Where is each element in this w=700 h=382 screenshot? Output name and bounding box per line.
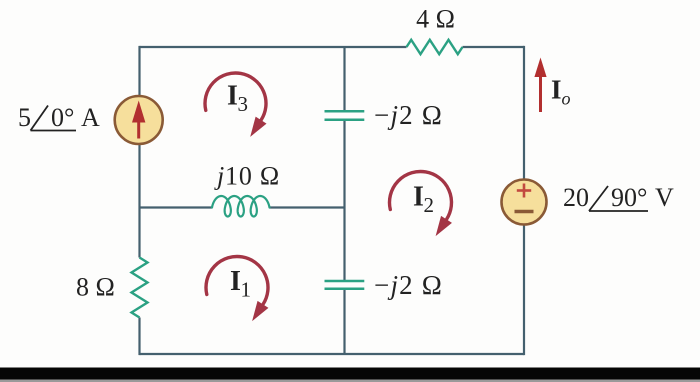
label I3	[227, 81, 248, 117]
wire left middle (current source to 8ohm)	[138, 144, 140, 258]
svg-text:1: 1	[241, 278, 252, 302]
svg-text:90°: 90°	[611, 183, 647, 212]
svg-text:0°: 0°	[51, 103, 74, 132]
wire bottom	[140, 353, 525, 355]
arrow Io	[534, 58, 546, 113]
svg-text:3: 3	[238, 92, 249, 116]
wire top-right segment	[463, 46, 525, 48]
wire middle horizontal left (node to inductor)	[140, 206, 213, 208]
bottom black bar	[0, 368, 700, 380]
wire right lower (voltage source to bottom)	[523, 224, 525, 355]
svg-text:I: I	[413, 182, 424, 213]
wire right upper (top to voltage source)	[523, 46, 525, 180]
svg-text:V: V	[655, 183, 674, 212]
mesh arrow I1	[206, 257, 268, 322]
wire middle vertical upper (top to cap C1)	[343, 47, 345, 111]
wire left upper (top to current source)	[138, 46, 140, 96]
label I2	[413, 182, 434, 218]
label 5 angle 0 A	[18, 103, 100, 132]
svg-text:−j2 Ω: −j2 Ω	[374, 270, 443, 300]
label Io	[551, 75, 571, 109]
svg-text:A: A	[81, 103, 100, 132]
svg-text:o: o	[562, 89, 571, 109]
resistor 8ohm	[132, 258, 148, 318]
wire top-left segment	[140, 46, 407, 48]
mesh arrow I2	[389, 172, 451, 237]
svg-text:5: 5	[18, 103, 31, 132]
svg-text:I: I	[230, 266, 241, 297]
mesh arrow I3	[205, 73, 267, 137]
wire middle horizontal right (inductor to middle node)	[270, 206, 345, 208]
wire middle vertical mid (cap C1 to mid node)	[343, 120, 345, 281]
svg-text:I: I	[227, 81, 238, 112]
svg-text:I: I	[551, 75, 562, 105]
capacitor -j2 top	[325, 110, 365, 113]
wire left lower (8ohm to bottom)	[138, 318, 140, 356]
label I1	[230, 266, 251, 302]
svg-text:−j2 Ω: −j2 Ω	[374, 100, 443, 130]
svg-text:8 Ω: 8 Ω	[76, 273, 115, 302]
svg-text:2: 2	[424, 193, 435, 217]
svg-text:20: 20	[563, 183, 589, 212]
wire middle vertical lower (cap C2 to bottom)	[343, 289, 345, 354]
voltage source 20 angle 90 V	[502, 180, 547, 225]
label 20 angle 90 V	[563, 183, 674, 212]
current source 5 angle 0 A	[115, 96, 163, 144]
capacitor -j2 bottom	[325, 280, 365, 283]
inductor j10	[212, 196, 270, 217]
resistor 4ohm	[407, 40, 463, 54]
svg-text:j10 Ω: j10 Ω	[214, 162, 280, 191]
svg-text:4 Ω: 4 Ω	[416, 5, 455, 34]
